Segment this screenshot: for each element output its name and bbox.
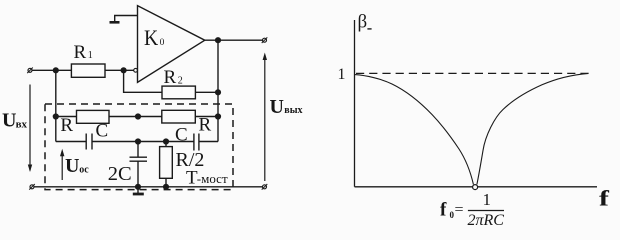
label beta (358, 12, 368, 33)
response curve right branch (477, 73, 589, 184)
wire 2C branch top (137, 142, 139, 158)
wire R2 to output branch (195, 91, 218, 93)
output terminal top (263, 38, 267, 42)
svg-text:C: C (175, 124, 188, 145)
svg-text:2C: 2C (108, 163, 132, 185)
svg-text:f: f (440, 200, 447, 221)
wire R/2 top (165, 142, 167, 147)
node R row right junction (216, 114, 221, 119)
wire input to R1 (33, 69, 72, 71)
svg-text:0: 0 (160, 38, 165, 48)
label U_vx (2, 110, 28, 132)
bottom rail wire (35, 186, 263, 188)
node feedback junction (121, 68, 126, 73)
label R2 (164, 67, 183, 88)
svg-text:U: U (65, 155, 79, 177)
wire non-inverting input (115, 16, 138, 22)
op-amp U1 (138, 6, 205, 83)
wire output branch down right side (217, 40, 219, 141)
graph X axis (355, 186, 598, 188)
svg-text:R: R (199, 115, 212, 136)
label f0 formula (440, 190, 504, 229)
arrow U_vx (29, 85, 31, 171)
input terminal bottom (30, 185, 34, 189)
wire C row left (56, 141, 86, 143)
graph Y axis (354, 20, 356, 187)
node C row at R/2 (164, 139, 169, 144)
label U_vyh (270, 96, 303, 118)
fraction bar (468, 210, 504, 212)
resistor R/2 (160, 147, 173, 179)
capacitor C left (85, 134, 87, 150)
node T input (53, 114, 58, 119)
ground at op-amp input (110, 21, 120, 24)
node R2 output junction (216, 90, 221, 95)
label R/2 (176, 149, 205, 171)
wire R/2 bottom (165, 178, 167, 187)
svg-text:-мост: -мост (197, 171, 228, 186)
svg-text:ос: ос (79, 165, 89, 176)
ground at rail (137, 187, 139, 193)
svg-text:1: 1 (88, 50, 93, 61)
label 2C (108, 163, 132, 185)
svg-text:K: K (144, 25, 158, 50)
node rail at R/2 (164, 184, 169, 189)
arrow U_vyh (264, 55, 266, 181)
node rail at 2C (136, 184, 141, 189)
capacitor 2C (130, 156, 148, 158)
label f (599, 186, 609, 210)
svg-text:R: R (60, 115, 73, 136)
svg-text:U: U (2, 110, 16, 132)
wire R row left (56, 116, 77, 118)
resistor R1 (71, 64, 105, 77)
node C row at 2C (136, 139, 141, 144)
output terminal bottom (263, 185, 267, 189)
wire C row middle (92, 141, 194, 143)
resistor R right (162, 110, 196, 123)
svg-text:вых: вых (284, 105, 302, 116)
label R1 (74, 42, 93, 63)
svg-text:1: 1 (338, 66, 346, 83)
wire R row right (195, 116, 218, 118)
svg-text:1: 1 (483, 190, 492, 209)
label R right (199, 115, 212, 136)
wire 2C to rail (137, 161, 139, 187)
dashed unity level line (356, 72, 589, 74)
svg-text:вх: вх (16, 118, 28, 130)
svg-text:C: C (96, 121, 109, 142)
dashed box T-bridge (45, 104, 233, 190)
capacitor C right (193, 134, 195, 151)
svg-text:f: f (599, 186, 609, 210)
svg-text:R: R (74, 42, 87, 63)
label U_os (65, 155, 89, 177)
svg-text:U: U (270, 96, 284, 118)
arrow U_os (61, 151, 63, 180)
wire R1 to inverting input (105, 69, 134, 71)
input terminal top (28, 68, 32, 72)
wire R row middle (109, 116, 162, 118)
label T-most (186, 167, 228, 188)
svg-text:R: R (164, 67, 177, 88)
svg-text:2: 2 (178, 76, 183, 87)
label 1 (338, 66, 346, 83)
label R left (60, 115, 73, 136)
resistor R left (77, 110, 110, 123)
resistor R2 (162, 86, 195, 99)
node input junction (53, 68, 58, 73)
svg-text:=: = (455, 202, 464, 219)
wire op-amp output (205, 39, 262, 41)
label C right (175, 124, 188, 145)
svg-text:2πRC: 2πRC (468, 212, 505, 229)
label K0 (144, 25, 165, 50)
response curve left branch (355, 75, 474, 185)
svg-text:β: β (358, 12, 368, 33)
wire input node down to T-bridge left (55, 70, 57, 141)
node R row center (136, 114, 141, 119)
wire C row right (199, 141, 218, 143)
wire feedback to R2 (124, 70, 162, 92)
label C left (96, 121, 109, 142)
inverting input circle (134, 68, 138, 72)
node output junction (216, 38, 221, 43)
notch point circle (473, 185, 478, 190)
